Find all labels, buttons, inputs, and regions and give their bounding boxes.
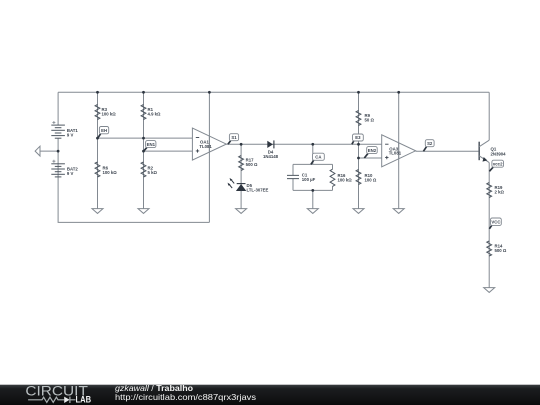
svg-text:EN2: EN2: [368, 148, 377, 153]
svg-text:http://circuitlab.com/c887qrx3: http://circuitlab.com/c887qrx3rjavs: [115, 393, 256, 402]
svg-text:S2: S2: [427, 141, 433, 146]
svg-text:500 Ω: 500 Ω: [246, 162, 258, 167]
svg-text:100 kΩ: 100 kΩ: [103, 170, 118, 175]
svg-text:2N3904: 2N3904: [491, 151, 507, 156]
svg-text:5 kΩ: 5 kΩ: [148, 170, 158, 175]
svg-text:100 µF: 100 µF: [302, 177, 316, 182]
svg-text:CA: CA: [315, 155, 321, 160]
svg-text:1N4148: 1N4148: [263, 154, 279, 159]
svg-text:100 kΩ: 100 kΩ: [338, 177, 353, 182]
svg-text:50 Ω: 50 Ω: [365, 118, 375, 123]
svg-text:100 kΩ: 100 kΩ: [102, 112, 117, 117]
svg-text:E3: E3: [355, 135, 361, 140]
svg-text:9 V: 9 V: [67, 171, 74, 176]
svg-text:100 Ω: 100 Ω: [365, 177, 377, 182]
svg-text:LAB: LAB: [76, 395, 92, 405]
svg-text:gzkawall / Trabalho: gzkawall / Trabalho: [115, 384, 193, 393]
svg-text:EN1: EN1: [147, 142, 156, 147]
svg-text:S1: S1: [231, 135, 237, 140]
svg-text:TL081: TL081: [199, 144, 212, 149]
svg-text:EH: EH: [101, 128, 107, 133]
svg-text:500 Ω: 500 Ω: [495, 248, 507, 253]
svg-text:2 kΩ: 2 kΩ: [495, 189, 505, 194]
svg-text:4.9 kΩ: 4.9 kΩ: [148, 112, 162, 117]
svg-text:LTL-307EE: LTL-307EE: [247, 188, 269, 193]
svg-text:TL081: TL081: [389, 151, 402, 156]
svg-text:9 V: 9 V: [67, 132, 74, 137]
svg-text:vcc2: vcc2: [493, 161, 503, 166]
svg-text:VCC: VCC: [491, 220, 500, 225]
